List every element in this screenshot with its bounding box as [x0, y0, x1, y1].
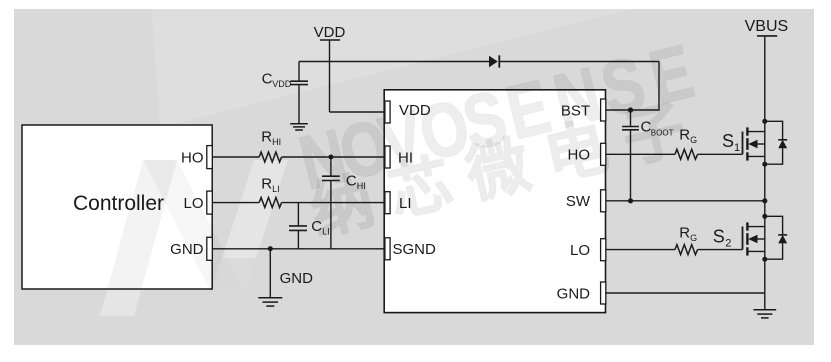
transistor S2 — [743, 222, 765, 255]
body diode S1 — [765, 121, 787, 164]
IC pin HI — [385, 146, 413, 168]
controller box fill — [22, 125, 212, 289]
svg-text:LI: LI — [272, 184, 280, 194]
svg-text:VDD: VDD — [314, 24, 346, 41]
resistor RG high — [675, 127, 698, 160]
svg-text:GND: GND — [280, 270, 314, 287]
IC pin SGND — [385, 238, 436, 260]
svg-text:SGND: SGND — [393, 241, 437, 258]
capacitor CVDD — [262, 62, 308, 124]
svg-text:G: G — [690, 233, 697, 243]
node S2 drain — [762, 214, 767, 219]
svg-text:HI: HI — [357, 181, 366, 191]
wire top rail VDD to diode to BST corner — [299, 61, 659, 63]
wire SW — [606, 200, 765, 202]
VBUS supply symbol — [745, 18, 789, 36]
svg-text:R: R — [679, 224, 690, 241]
svg-text:HI: HI — [398, 149, 413, 166]
wire LO to LI — [212, 202, 385, 204]
driver IC box fill — [384, 90, 605, 313]
svg-text:C: C — [262, 71, 273, 88]
wire VDD to IC pin — [330, 111, 385, 113]
svg-text:1: 1 — [734, 142, 740, 154]
watermark chinese text — [305, 90, 710, 247]
svg-text:SW: SW — [566, 193, 591, 210]
IC pin LO — [570, 239, 606, 261]
svg-text:VDD: VDD — [399, 102, 431, 119]
svg-text:HI: HI — [272, 137, 281, 147]
svg-text:S: S — [722, 131, 734, 151]
capacitor CHI — [322, 157, 366, 249]
transistor S1 — [743, 127, 765, 160]
svg-text:LO: LO — [570, 242, 590, 259]
svg-text:HO: HO — [181, 149, 204, 166]
controller pin LO — [183, 191, 212, 214]
IC pin GND — [557, 282, 606, 304]
controller pin HO — [181, 146, 212, 169]
svg-text:C: C — [346, 172, 357, 189]
resistor RLI — [259, 175, 281, 207]
svg-text:G: G — [690, 135, 697, 145]
svg-text:R: R — [261, 175, 272, 192]
svg-text:R: R — [261, 128, 272, 145]
svg-text:2: 2 — [725, 238, 731, 250]
driver IC U1 box — [384, 90, 605, 313]
node S1 source — [762, 162, 767, 167]
ground power stage — [753, 310, 776, 318]
svg-text:GND: GND — [557, 285, 591, 302]
IC pin SW — [566, 190, 606, 212]
watermark logo N — [100, 0, 715, 316]
svg-text:LI: LI — [399, 195, 412, 212]
body diode S2 — [765, 216, 787, 259]
controller box — [22, 125, 212, 289]
node CBOOT-SW junction — [628, 198, 633, 203]
capacitor CLI — [289, 203, 330, 249]
label S1 — [722, 131, 740, 154]
svg-text:C: C — [311, 218, 322, 235]
svg-text:BST: BST — [561, 102, 590, 119]
IC pin VDD — [385, 101, 431, 123]
ground controller — [258, 298, 282, 306]
diode D1 — [489, 55, 499, 67]
node S2 source — [762, 257, 767, 262]
node GND junction — [268, 246, 273, 251]
node S1 drain — [762, 119, 767, 124]
svg-text:GND: GND — [170, 241, 204, 258]
wire GND to SGND — [212, 248, 385, 250]
node BST junction — [628, 107, 633, 112]
wire LO to gate — [606, 249, 743, 251]
controller pin GND — [170, 237, 212, 260]
IC pin BST — [561, 99, 606, 121]
wire GND bottom — [606, 292, 765, 294]
svg-text:Controller: Controller — [73, 192, 164, 215]
IC pin LI — [385, 192, 412, 214]
watermark NOVOSENSE text — [292, 29, 701, 206]
svg-text:BOOT: BOOT — [651, 128, 674, 137]
capacitor CBOOT — [622, 110, 673, 201]
svg-text:LI: LI — [322, 226, 330, 236]
svg-text:VDD: VDD — [272, 79, 292, 89]
node SW junction — [762, 198, 767, 203]
ground under CVDD — [290, 124, 308, 130]
resistor RHI — [259, 128, 281, 162]
wire HO to HI — [212, 156, 385, 158]
svg-text:S: S — [713, 227, 725, 247]
label S2 — [713, 227, 732, 250]
wire to controller ground — [270, 249, 313, 298]
VDD supply symbol — [314, 24, 346, 112]
wire BST — [606, 62, 659, 111]
resistor RG low — [675, 224, 698, 254]
svg-text:VBUS: VBUS — [745, 18, 789, 35]
wire VBUS rail — [764, 36, 766, 310]
svg-text:HO: HO — [568, 147, 591, 164]
IC pin HO — [568, 143, 606, 165]
node HI junction — [328, 155, 333, 160]
wire HO to gate — [606, 153, 743, 155]
svg-text:R: R — [679, 127, 690, 144]
svg-text:LO: LO — [183, 195, 203, 212]
